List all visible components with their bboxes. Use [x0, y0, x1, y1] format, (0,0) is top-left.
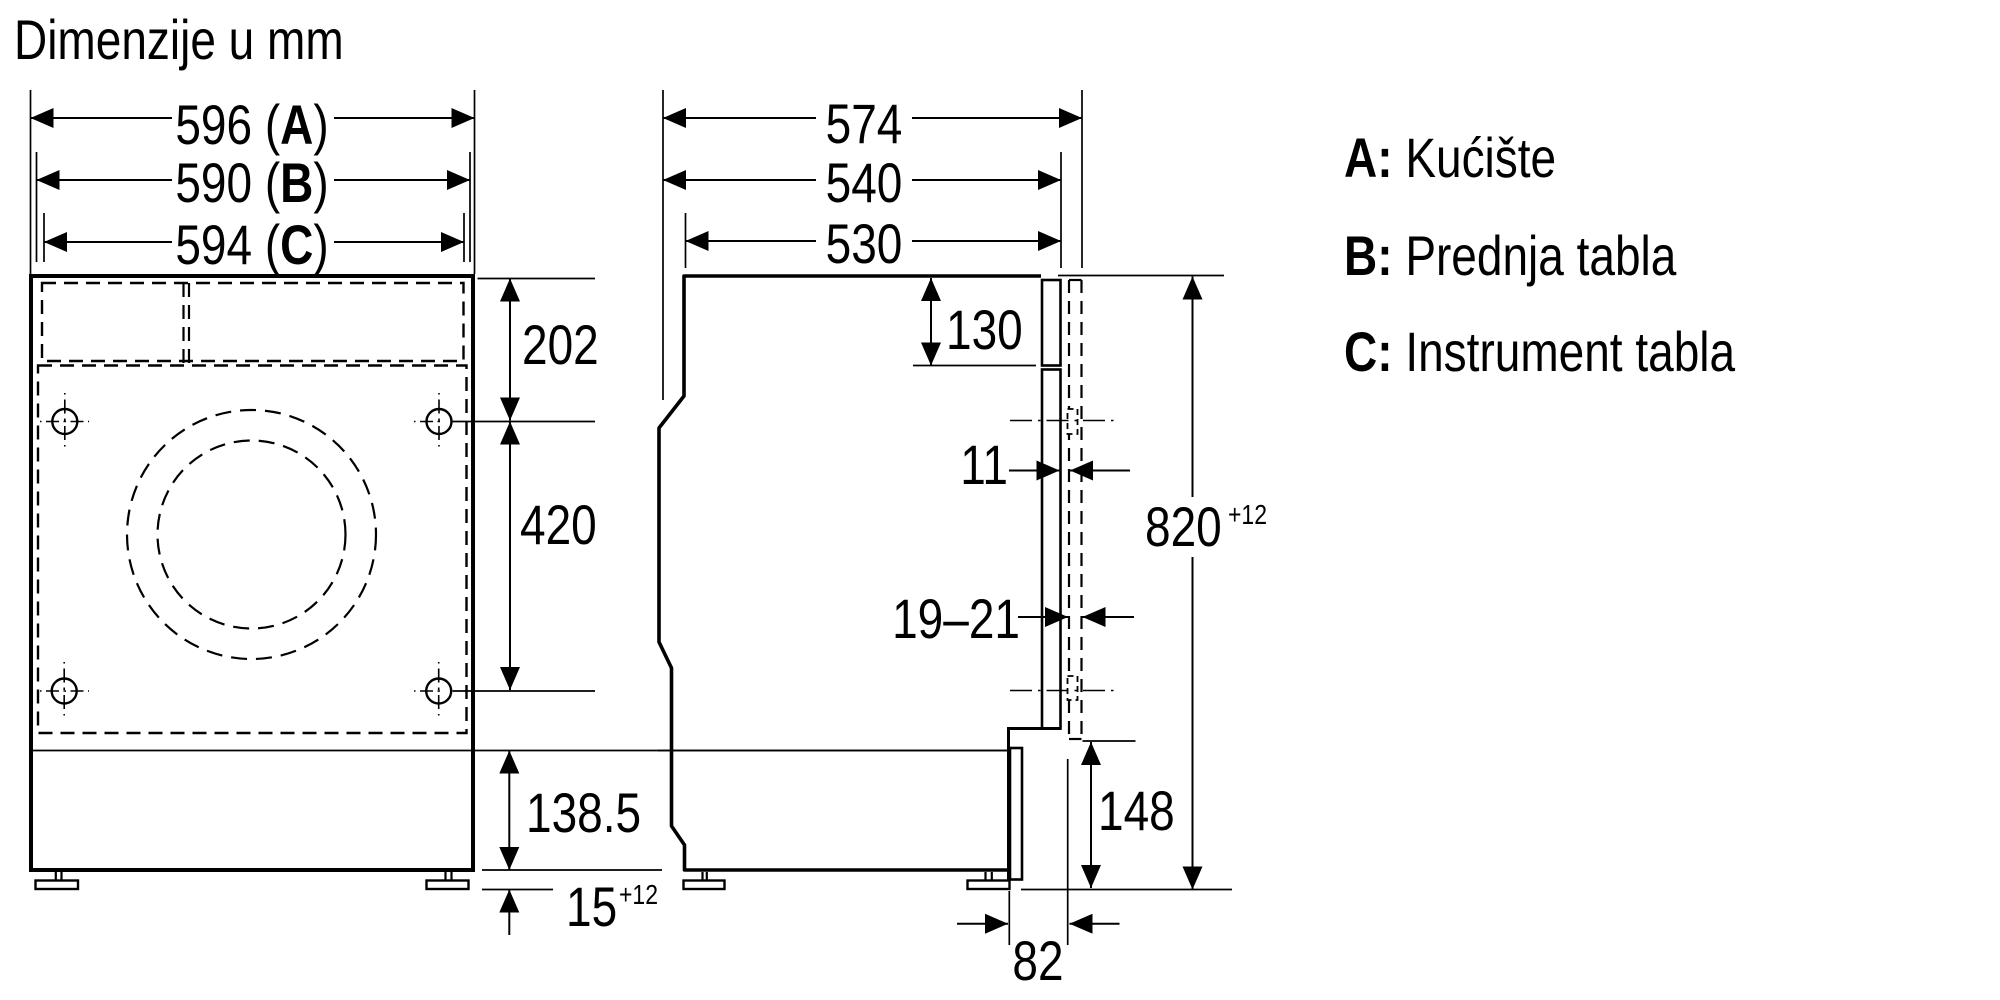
dim 148	[1090, 742, 1092, 888]
ref line holes bottom right	[453, 690, 595, 692]
mounting hole top-right	[414, 393, 452, 451]
side view front body edge	[1007, 730, 1010, 880]
dim 420	[509, 422, 511, 691]
ref line top for 820	[1058, 275, 1224, 277]
dim 202	[509, 279, 511, 421]
side view door bottom edge	[1007, 727, 1061, 730]
drum outer dashed circle	[127, 410, 376, 659]
svg-text:138.5: 138.5	[526, 782, 641, 844]
svg-text:+12: +12	[1228, 500, 1267, 530]
ref line machine bottom extended	[482, 869, 662, 871]
dim 596 (A) extension lines	[30, 90, 32, 274]
front panel dashed rect (B)	[38, 366, 467, 734]
front view housing (A) outer rect	[31, 276, 473, 870]
dim 138.5	[508, 751, 510, 871]
dim 540 extension line	[1060, 152, 1062, 268]
front view instrument panel dashed rect (C)	[42, 283, 464, 361]
floor ref line front view	[482, 889, 553, 891]
plinth reference line across views	[31, 750, 1008, 752]
svg-text:820: 820	[1145, 496, 1222, 558]
side view profile	[659, 276, 1041, 870]
svg-text:540: 540	[826, 152, 903, 214]
dim 82 extension lines	[1008, 891, 1010, 945]
svg-text:202: 202	[522, 314, 599, 376]
furniture door dashed (B) side view	[1069, 280, 1082, 739]
svg-text:130: 130	[946, 299, 1023, 361]
mounting hole bottom-left	[40, 662, 89, 720]
hinge cup upper dashed	[1068, 409, 1078, 434]
svg-text:Dimenzije u mm: Dimenzije u mm	[14, 9, 344, 71]
dim 596 (A)	[31, 117, 173, 119]
hinge upper dash-dot line	[1010, 420, 1116, 422]
hinge lower dash-dot line	[1010, 690, 1116, 692]
front view left foot	[36, 872, 79, 889]
svg-text:+12: +12	[619, 880, 658, 910]
ref line 130	[913, 365, 1036, 367]
svg-text:11: 11	[960, 434, 1008, 496]
ref line holes top right	[453, 421, 595, 423]
floor line side view	[1021, 889, 1232, 891]
dim 574 extension lines	[662, 90, 664, 400]
dim 590 (B)	[37, 179, 173, 181]
side view rear foot	[684, 872, 725, 889]
dim 574	[663, 117, 816, 119]
side view instrument panel (top)	[1042, 280, 1061, 366]
title	[14, 9, 344, 71]
svg-text:A: Kućište: A: Kućište	[1344, 127, 1556, 189]
legend B	[1344, 225, 1677, 287]
dim 540	[663, 179, 816, 181]
svg-text:148: 148	[1098, 780, 1175, 842]
dim 530	[686, 240, 817, 242]
side view front foot	[968, 872, 1010, 889]
instrument panel divider dashed double line	[182, 283, 184, 366]
svg-text:B: Prednja tabla: B: Prednja tabla	[1344, 225, 1677, 287]
ref extension of plinth line	[658, 750, 1008, 752]
svg-text:590 (B): 590 (B)	[175, 152, 328, 214]
svg-text:594 (C): 594 (C)	[175, 214, 328, 276]
mounting hole bottom-right	[414, 662, 452, 720]
ref line furniture door bottom	[1083, 740, 1136, 742]
dim 820+12	[1192, 277, 1194, 498]
dim 594 (C)	[44, 241, 172, 243]
svg-text:530: 530	[826, 213, 903, 275]
dim 82	[957, 923, 1008, 925]
ref line top of housing right	[478, 278, 596, 280]
svg-text:82: 82	[1012, 930, 1063, 992]
side view door panel	[1042, 370, 1061, 729]
svg-text:596 (A): 596 (A)	[175, 94, 328, 156]
front view right foot	[427, 872, 469, 889]
dim 15+12	[508, 890, 510, 936]
side view plinth panel	[1010, 748, 1022, 880]
svg-text:420: 420	[520, 494, 597, 556]
svg-text:19–21: 19–21	[892, 588, 1020, 650]
dim 530 extension line	[685, 213, 687, 268]
dim 11	[1009, 470, 1060, 472]
hinge cup lower dashed	[1068, 676, 1078, 700]
svg-text:574: 574	[826, 93, 903, 155]
mounting hole top-left	[40, 393, 89, 451]
svg-text:15: 15	[566, 876, 617, 938]
drum inner dashed circle	[158, 441, 346, 629]
dim 130	[930, 278, 932, 366]
dim 590 (B) extension lines	[36, 152, 38, 262]
legend C	[1344, 321, 1736, 383]
legend A	[1344, 127, 1556, 189]
svg-text:C: Instrument tabla: C: Instrument tabla	[1344, 321, 1736, 383]
dim 594 (C) extension lines	[43, 213, 45, 262]
dim 19–21	[1018, 616, 1068, 618]
